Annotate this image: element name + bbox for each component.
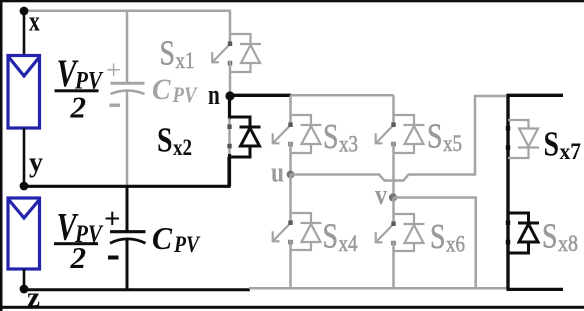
- svg-text:x8: x8: [558, 231, 578, 256]
- wire CPV2 to bottom wire: [126, 240, 129, 291]
- node n: [225, 91, 234, 100]
- switch Sx8 (conducting diode): [508, 213, 539, 253]
- wire Sx3 to node u: [289, 142, 292, 175]
- switch Sx2 (conducting diode): [230, 117, 261, 157]
- svg-text:2: 2: [70, 240, 87, 275]
- wire y-wire to capacitor CPV2: [126, 186, 129, 231]
- wire node u to right leg top (with hop over Sx5 leg): [291, 96, 507, 181]
- wire output terminal top: [507, 94, 564, 97]
- svg-text:u: u: [271, 157, 284, 189]
- frame top border: [0, 0, 584, 2]
- svg-text:S: S: [157, 121, 173, 160]
- wire node u to Sx4: [289, 175, 292, 225]
- svg-text:v: v: [375, 179, 387, 211]
- wire CPV1 to y-wire: [126, 92, 129, 187]
- svg-text:z: z: [27, 282, 40, 311]
- svg-text:x: x: [29, 6, 40, 38]
- svg-text:x4: x4: [339, 231, 358, 256]
- wire Sx5 leg upper: [392, 95, 395, 126]
- wire Sx6 to bottom rail: [392, 241, 395, 288]
- switch Sx7: [508, 120, 539, 158]
- svg-text:x3: x3: [339, 132, 358, 157]
- wire left rail node x to PV1: [23, 11, 26, 55]
- svg-text:S: S: [427, 117, 443, 156]
- wire output terminal bottom: [507, 288, 564, 291]
- node u: [287, 171, 295, 179]
- bottom rail (gray): [249, 287, 507, 290]
- wire Sx5 to node v: [392, 142, 395, 198]
- node v: [389, 193, 397, 201]
- svg-text:n: n: [208, 79, 220, 111]
- wire Sx2 switch bar (gray, open switch): [228, 118, 231, 155]
- wire right leg bus: [506, 94, 509, 289]
- label CPV1: [152, 73, 198, 107]
- svg-text:x5: x5: [443, 131, 462, 156]
- label CPV2: [152, 220, 200, 257]
- frame left border: [0, 0, 3, 311]
- label VPV/2 lower: [54, 206, 104, 276]
- wire Sx4 to bottom rail: [289, 240, 292, 288]
- frame bottom border: [0, 306, 584, 309]
- svg-text:S: S: [323, 217, 339, 256]
- switch Sx4: [272, 213, 322, 250]
- wire node v to right leg bottom: [394, 198, 508, 289]
- wire Sx1 leg upper: [229, 11, 232, 45]
- svg-text:x6: x6: [446, 232, 465, 257]
- switch Sx1: [211, 34, 261, 72]
- wire node v to Sx6: [392, 198, 395, 226]
- wire H-bridge top rail: [291, 94, 394, 97]
- svg-text:PV: PV: [173, 232, 200, 257]
- svg-text:S: S: [542, 217, 558, 256]
- node z: [20, 285, 29, 294]
- switch Sx3: [272, 115, 322, 153]
- switch Sx6: [375, 214, 425, 251]
- wire node y to Sx2 bottom: [24, 157, 229, 186]
- wire Sx2 main lower (black): [228, 154, 231, 186]
- PV panel 2: [8, 198, 40, 269]
- wire top rail from node x to Sx1 leg: [24, 10, 231, 13]
- PV panel 1: [8, 56, 40, 129]
- svg-text:+: +: [106, 55, 121, 85]
- svg-text:S: S: [430, 217, 446, 256]
- svg-text:C: C: [152, 73, 171, 106]
- label - CPV2: [108, 256, 119, 260]
- svg-text:+: +: [104, 203, 121, 235]
- label VPV/2 upper: [55, 52, 104, 125]
- node x: [20, 7, 29, 16]
- wire node z to bottom rail: [24, 288, 250, 291]
- svg-text:x1: x1: [176, 48, 195, 73]
- svg-text:S: S: [544, 125, 560, 164]
- switch Sx5: [375, 115, 425, 153]
- wire Sx3 leg upper: [289, 95, 292, 126]
- node y: [20, 182, 29, 191]
- wire PV1 to node y: [23, 128, 26, 186]
- svg-text:S: S: [160, 34, 176, 73]
- svg-text:PV: PV: [172, 82, 199, 107]
- wire PV2 to node z: [23, 269, 26, 289]
- svg-text:C: C: [152, 220, 173, 256]
- capacitor CPV1 (gray): [111, 83, 145, 94]
- wire node n to H-bridge top: [230, 94, 291, 97]
- svg-text:2: 2: [70, 90, 87, 125]
- wire Sx2 main upper (black): [228, 96, 231, 120]
- wire Sx1 to node n: [229, 61, 232, 93]
- svg-text:x2: x2: [173, 135, 192, 160]
- label - CPV1: [110, 104, 121, 107]
- svg-text:S: S: [323, 117, 339, 156]
- wire top rail to capacitor CPV1: [126, 11, 129, 82]
- capacitor CPV2 (black): [110, 232, 146, 244]
- svg-text:y: y: [29, 147, 43, 179]
- svg-text:x7: x7: [560, 139, 582, 164]
